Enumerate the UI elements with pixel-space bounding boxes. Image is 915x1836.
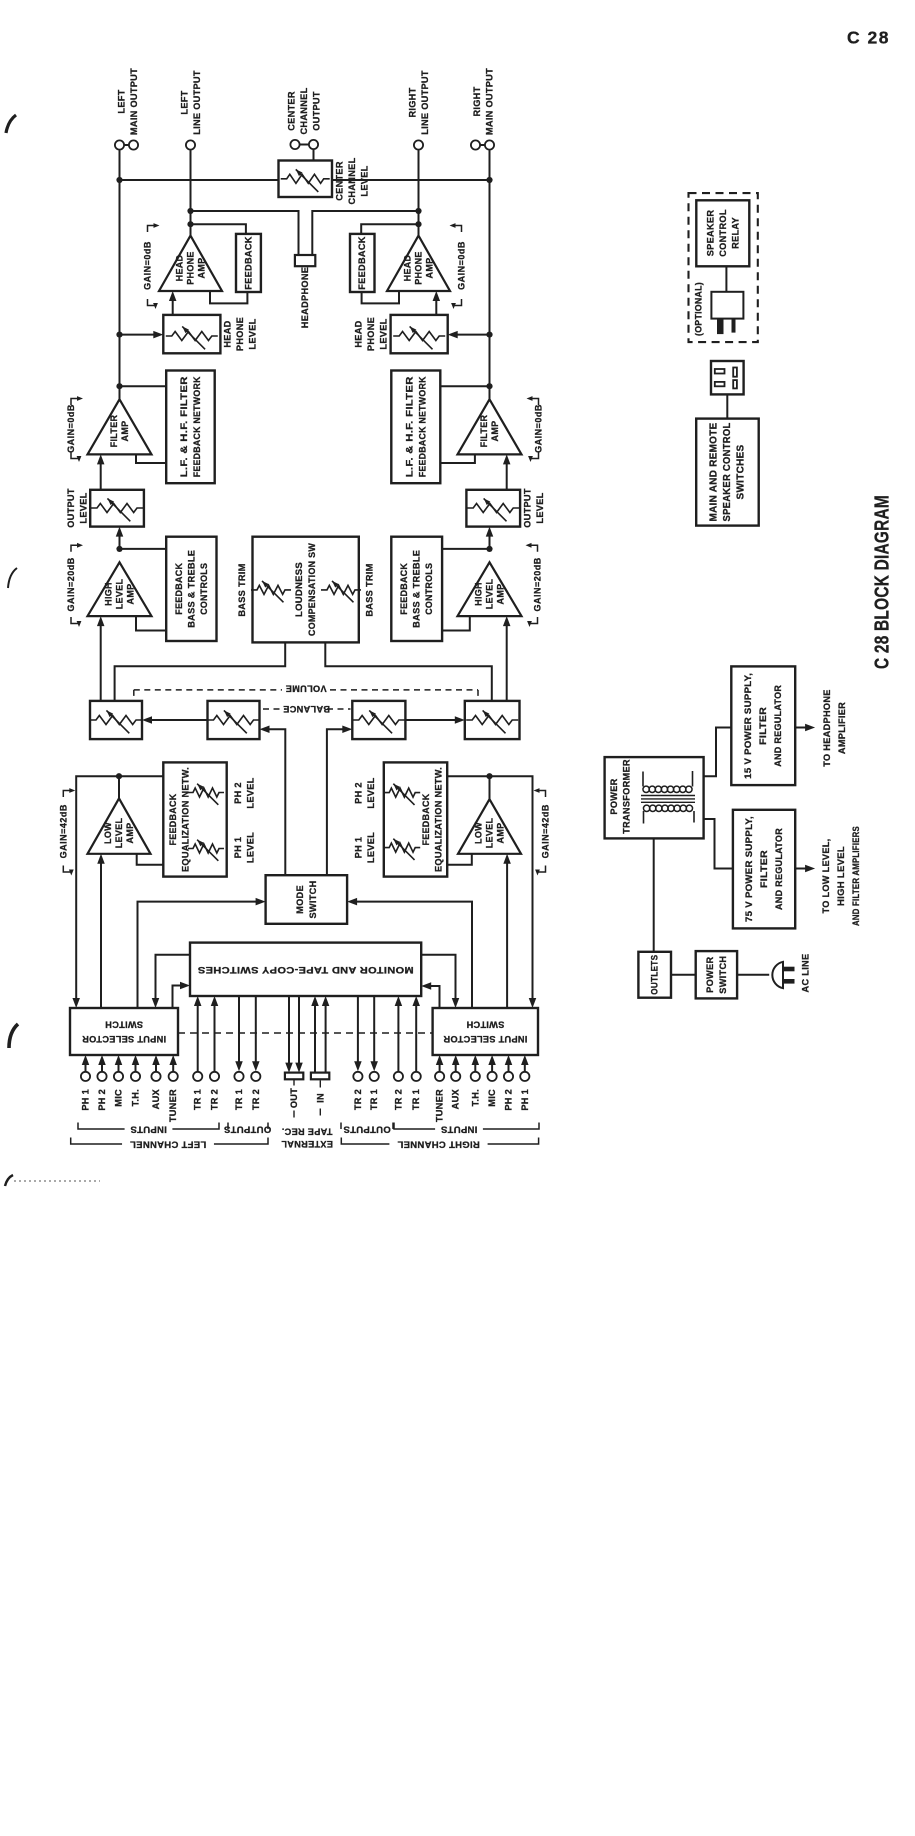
svg-text:PH 1: PH 1 (520, 1089, 530, 1111)
svg-text:CENTER: CENTER (335, 161, 345, 201)
svg-text:MAIN AND REMOTE: MAIN AND REMOTE (709, 422, 720, 521)
svg-text:AMP: AMP (496, 584, 506, 605)
svg-text:GAIN=42dB: GAIN=42dB (58, 804, 68, 858)
svg-text:RIGHT CHANNEL: RIGHT CHANNEL (397, 1139, 480, 1150)
svg-text:OUTPUT: OUTPUT (312, 91, 322, 131)
svg-text:LEVEL: LEVEL (379, 318, 389, 349)
svg-text:L.F. & H.F. FILTER: L.F. & H.F. FILTER (404, 376, 414, 477)
svg-text:AUX: AUX (451, 1088, 461, 1109)
svg-text:AMP: AMP (197, 258, 207, 279)
svg-text:MIC: MIC (487, 1089, 497, 1107)
svg-text:EQUALIZATION NETW.: EQUALIZATION NETW. (181, 767, 191, 872)
svg-text:CHANNEL: CHANNEL (299, 87, 309, 134)
svg-text:GAIN=0dB: GAIN=0dB (66, 404, 76, 453)
svg-text:TR 2: TR 2 (393, 1089, 403, 1110)
svg-text:BASS TRIM: BASS TRIM (237, 563, 247, 616)
svg-text:CHANNEL: CHANNEL (347, 157, 357, 204)
svg-text:HEAD: HEAD (354, 320, 364, 347)
svg-text:FEEDBACK: FEEDBACK (244, 236, 254, 290)
svg-text:FEEDBACK NETWORK: FEEDBACK NETWORK (417, 376, 427, 477)
svg-text:GAIN=42dB: GAIN=42dB (541, 804, 551, 858)
svg-text:OUT: OUT (289, 1088, 299, 1108)
svg-text:HEADPHONE: HEADPHONE (300, 267, 310, 328)
svg-text:C 28: C 28 (847, 28, 890, 48)
svg-text:TR 1: TR 1 (411, 1089, 421, 1110)
svg-text:TO LOW LEVEL,: TO LOW LEVEL, (821, 839, 831, 914)
svg-text:SWITCH: SWITCH (466, 1019, 504, 1029)
svg-text:GAIN=0dB: GAIN=0dB (534, 404, 544, 453)
svg-text:PH 2: PH 2 (233, 782, 243, 804)
svg-text:POWER: POWER (705, 957, 715, 993)
svg-text:(OPTIONAL): (OPTIONAL) (694, 282, 704, 336)
svg-text:HIGH: HIGH (104, 582, 114, 606)
svg-text:PHONE: PHONE (186, 251, 196, 285)
svg-text:INPUT SELECTOR: INPUT SELECTOR (82, 1034, 166, 1044)
svg-text:OUTPUT: OUTPUT (66, 488, 76, 528)
svg-text:TR 2: TR 2 (353, 1089, 363, 1110)
svg-text:TR 2: TR 2 (210, 1089, 220, 1110)
svg-text:LEVEL: LEVEL (366, 832, 376, 863)
svg-text:LINE OUTPUT: LINE OUTPUT (420, 70, 430, 135)
svg-text:SPEAKER CONTROL: SPEAKER CONTROL (722, 423, 733, 522)
svg-text:LEVEL: LEVEL (535, 492, 545, 523)
svg-text:AMP: AMP (120, 421, 130, 442)
svg-text:SWITCH: SWITCH (718, 956, 728, 994)
svg-text:HIGH: HIGH (474, 582, 484, 606)
svg-text:FEEDBACK: FEEDBACK (168, 793, 178, 845)
svg-text:LOW: LOW (103, 822, 113, 844)
svg-text:RIGHT: RIGHT (407, 87, 417, 117)
svg-text:CONTROLS: CONTROLS (424, 563, 434, 615)
svg-text:INPUT SELECTOR: INPUT SELECTOR (443, 1034, 527, 1044)
svg-text:LEVEL: LEVEL (485, 579, 495, 610)
svg-text:LEFT CHANNEL: LEFT CHANNEL (130, 1139, 206, 1150)
svg-text:CENTER: CENTER (287, 91, 297, 131)
svg-text:OUTLETS: OUTLETS (650, 955, 660, 995)
svg-text:CONTROLS: CONTROLS (199, 563, 209, 615)
svg-text:VOLUME: VOLUME (285, 684, 326, 694)
svg-text:AND REGULATOR: AND REGULATOR (773, 685, 783, 767)
svg-text:FEEDBACK: FEEDBACK (357, 236, 367, 290)
svg-text:GAIN=20dB: GAIN=20dB (533, 557, 543, 611)
svg-text:HEAD: HEAD (175, 254, 185, 281)
svg-text:LEVEL: LEVEL (360, 165, 370, 196)
svg-text:LEVEL: LEVEL (115, 579, 125, 610)
svg-text:PH 1: PH 1 (353, 837, 363, 859)
svg-text:BASS & TREBLE: BASS & TREBLE (412, 550, 422, 628)
svg-text:OUTPUTS: OUTPUTS (224, 1124, 272, 1135)
svg-text:AMP: AMP (496, 823, 506, 844)
svg-text:TR 1: TR 1 (369, 1089, 379, 1110)
svg-text:FILTER: FILTER (759, 850, 769, 888)
svg-text:LEVEL: LEVEL (114, 818, 124, 849)
svg-text:RELAY: RELAY (731, 217, 741, 249)
svg-text:GAIN=0dB: GAIN=0dB (457, 241, 467, 290)
svg-text:TR 1: TR 1 (193, 1089, 203, 1110)
svg-text:PH 2: PH 2 (97, 1089, 107, 1111)
svg-text:FILTER: FILTER (479, 414, 489, 447)
svg-text:SWITCH: SWITCH (105, 1019, 143, 1029)
svg-text:LEVEL: LEVEL (245, 832, 255, 863)
svg-text:PH 2: PH 2 (353, 782, 363, 804)
svg-text:SPEAKER: SPEAKER (706, 210, 716, 257)
svg-text:IN: IN (315, 1093, 325, 1103)
svg-text:LOUDNESS: LOUDNESS (294, 562, 304, 617)
svg-text:COMPENSATION SW: COMPENSATION SW (307, 543, 317, 636)
svg-text:75 V POWER SUPPLY,: 75 V POWER SUPPLY, (744, 816, 754, 922)
svg-text:INPUTS: INPUTS (441, 1124, 478, 1135)
svg-text:15 V POWER SUPPLY,: 15 V POWER SUPPLY, (743, 673, 753, 779)
svg-text:GAIN=0dB: GAIN=0dB (143, 241, 153, 290)
svg-text:LEVEL: LEVEL (248, 318, 258, 349)
svg-text:TUNER: TUNER (435, 1089, 445, 1122)
svg-text:POWER: POWER (609, 778, 619, 814)
svg-text:PHONE: PHONE (414, 251, 424, 285)
svg-text:LOW: LOW (474, 822, 484, 844)
svg-text:PH 2: PH 2 (504, 1089, 514, 1111)
svg-text:RIGHT: RIGHT (472, 86, 482, 116)
svg-text:BASS TRIM: BASS TRIM (365, 563, 375, 616)
svg-text:C 28 BLOCK DIAGRAM: C 28 BLOCK DIAGRAM (872, 495, 894, 669)
svg-text:PH 1: PH 1 (233, 837, 243, 859)
svg-text:PHONE: PHONE (366, 317, 376, 351)
svg-text:AMP: AMP (126, 584, 136, 605)
svg-text:T.H.: T.H. (470, 1089, 480, 1107)
svg-text:AUX: AUX (151, 1088, 161, 1109)
svg-text:HEAD: HEAD (403, 254, 413, 281)
svg-text:LEFT: LEFT (179, 90, 189, 114)
svg-text:LEVEL: LEVEL (78, 492, 88, 523)
svg-text:OUTPUT: OUTPUT (522, 488, 532, 528)
svg-text:FEEDBACK: FEEDBACK (421, 793, 431, 845)
svg-text:LEFT: LEFT (116, 89, 126, 113)
svg-text:AC LINE: AC LINE (801, 954, 811, 993)
svg-text:LINE OUTPUT: LINE OUTPUT (192, 70, 202, 135)
svg-text:AND REGULATOR: AND REGULATOR (774, 828, 784, 910)
svg-text:HEAD: HEAD (223, 320, 233, 347)
svg-text:LEVEL: LEVEL (245, 777, 255, 808)
svg-text:LEVEL: LEVEL (366, 777, 376, 808)
svg-text:MODE: MODE (295, 885, 305, 914)
svg-text:AMP: AMP (125, 823, 135, 844)
svg-text:MAIN OUTPUT: MAIN OUTPUT (484, 68, 494, 135)
svg-text:EQUALIZATION NETW.: EQUALIZATION NETW. (434, 767, 444, 872)
svg-text:SWITCHES: SWITCHES (736, 444, 747, 499)
svg-text:AMP: AMP (490, 421, 500, 442)
svg-text:INPUTS: INPUTS (130, 1124, 167, 1135)
svg-text:LEVEL: LEVEL (485, 818, 495, 849)
svg-text:HIGH LEVEL: HIGH LEVEL (836, 846, 846, 906)
svg-text:OUTPUTS: OUTPUTS (343, 1124, 391, 1135)
svg-text:AMP: AMP (425, 258, 435, 279)
svg-text:FEEDBACK NETWORK: FEEDBACK NETWORK (192, 376, 202, 477)
svg-text:FEEDBACK: FEEDBACK (399, 563, 409, 615)
svg-text:MONITOR AND TAPE-COPY SWITCHES: MONITOR AND TAPE-COPY SWITCHES (198, 964, 414, 975)
svg-text:FILTER: FILTER (758, 707, 768, 745)
svg-text:BALANCE: BALANCE (283, 704, 330, 714)
svg-text:GAIN=20dB: GAIN=20dB (66, 557, 76, 611)
svg-text:TR 2: TR 2 (251, 1089, 261, 1110)
svg-text:CONTROL: CONTROL (718, 209, 728, 257)
svg-text:AND FILTER AMPLIFIERS: AND FILTER AMPLIFIERS (851, 826, 861, 926)
svg-text:PHONE: PHONE (235, 317, 245, 351)
svg-text:FEEDBACK: FEEDBACK (174, 563, 184, 615)
svg-text:L.F. & H.F. FILTER: L.F. & H.F. FILTER (179, 376, 189, 477)
svg-text:TUNER: TUNER (168, 1089, 178, 1122)
svg-text:BASS & TREBLE: BASS & TREBLE (186, 550, 196, 628)
svg-text:EXTERNAL: EXTERNAL (281, 1139, 333, 1149)
svg-text:TRANSFORMER: TRANSFORMER (621, 759, 631, 834)
svg-text:SWITCH: SWITCH (308, 880, 318, 918)
svg-text:TAPE REC.: TAPE REC. (281, 1126, 332, 1136)
svg-text:PH 1: PH 1 (81, 1089, 91, 1111)
svg-text:T.H.: T.H. (131, 1089, 141, 1107)
svg-text:MIC: MIC (114, 1089, 124, 1107)
svg-text:TR 1: TR 1 (234, 1089, 244, 1110)
svg-text:TO HEADPHONE: TO HEADPHONE (822, 689, 832, 766)
svg-text:MAIN OUTPUT: MAIN OUTPUT (129, 68, 139, 135)
svg-text:FILTER: FILTER (109, 414, 119, 447)
svg-text:AMPLIFIER: AMPLIFIER (837, 702, 847, 754)
